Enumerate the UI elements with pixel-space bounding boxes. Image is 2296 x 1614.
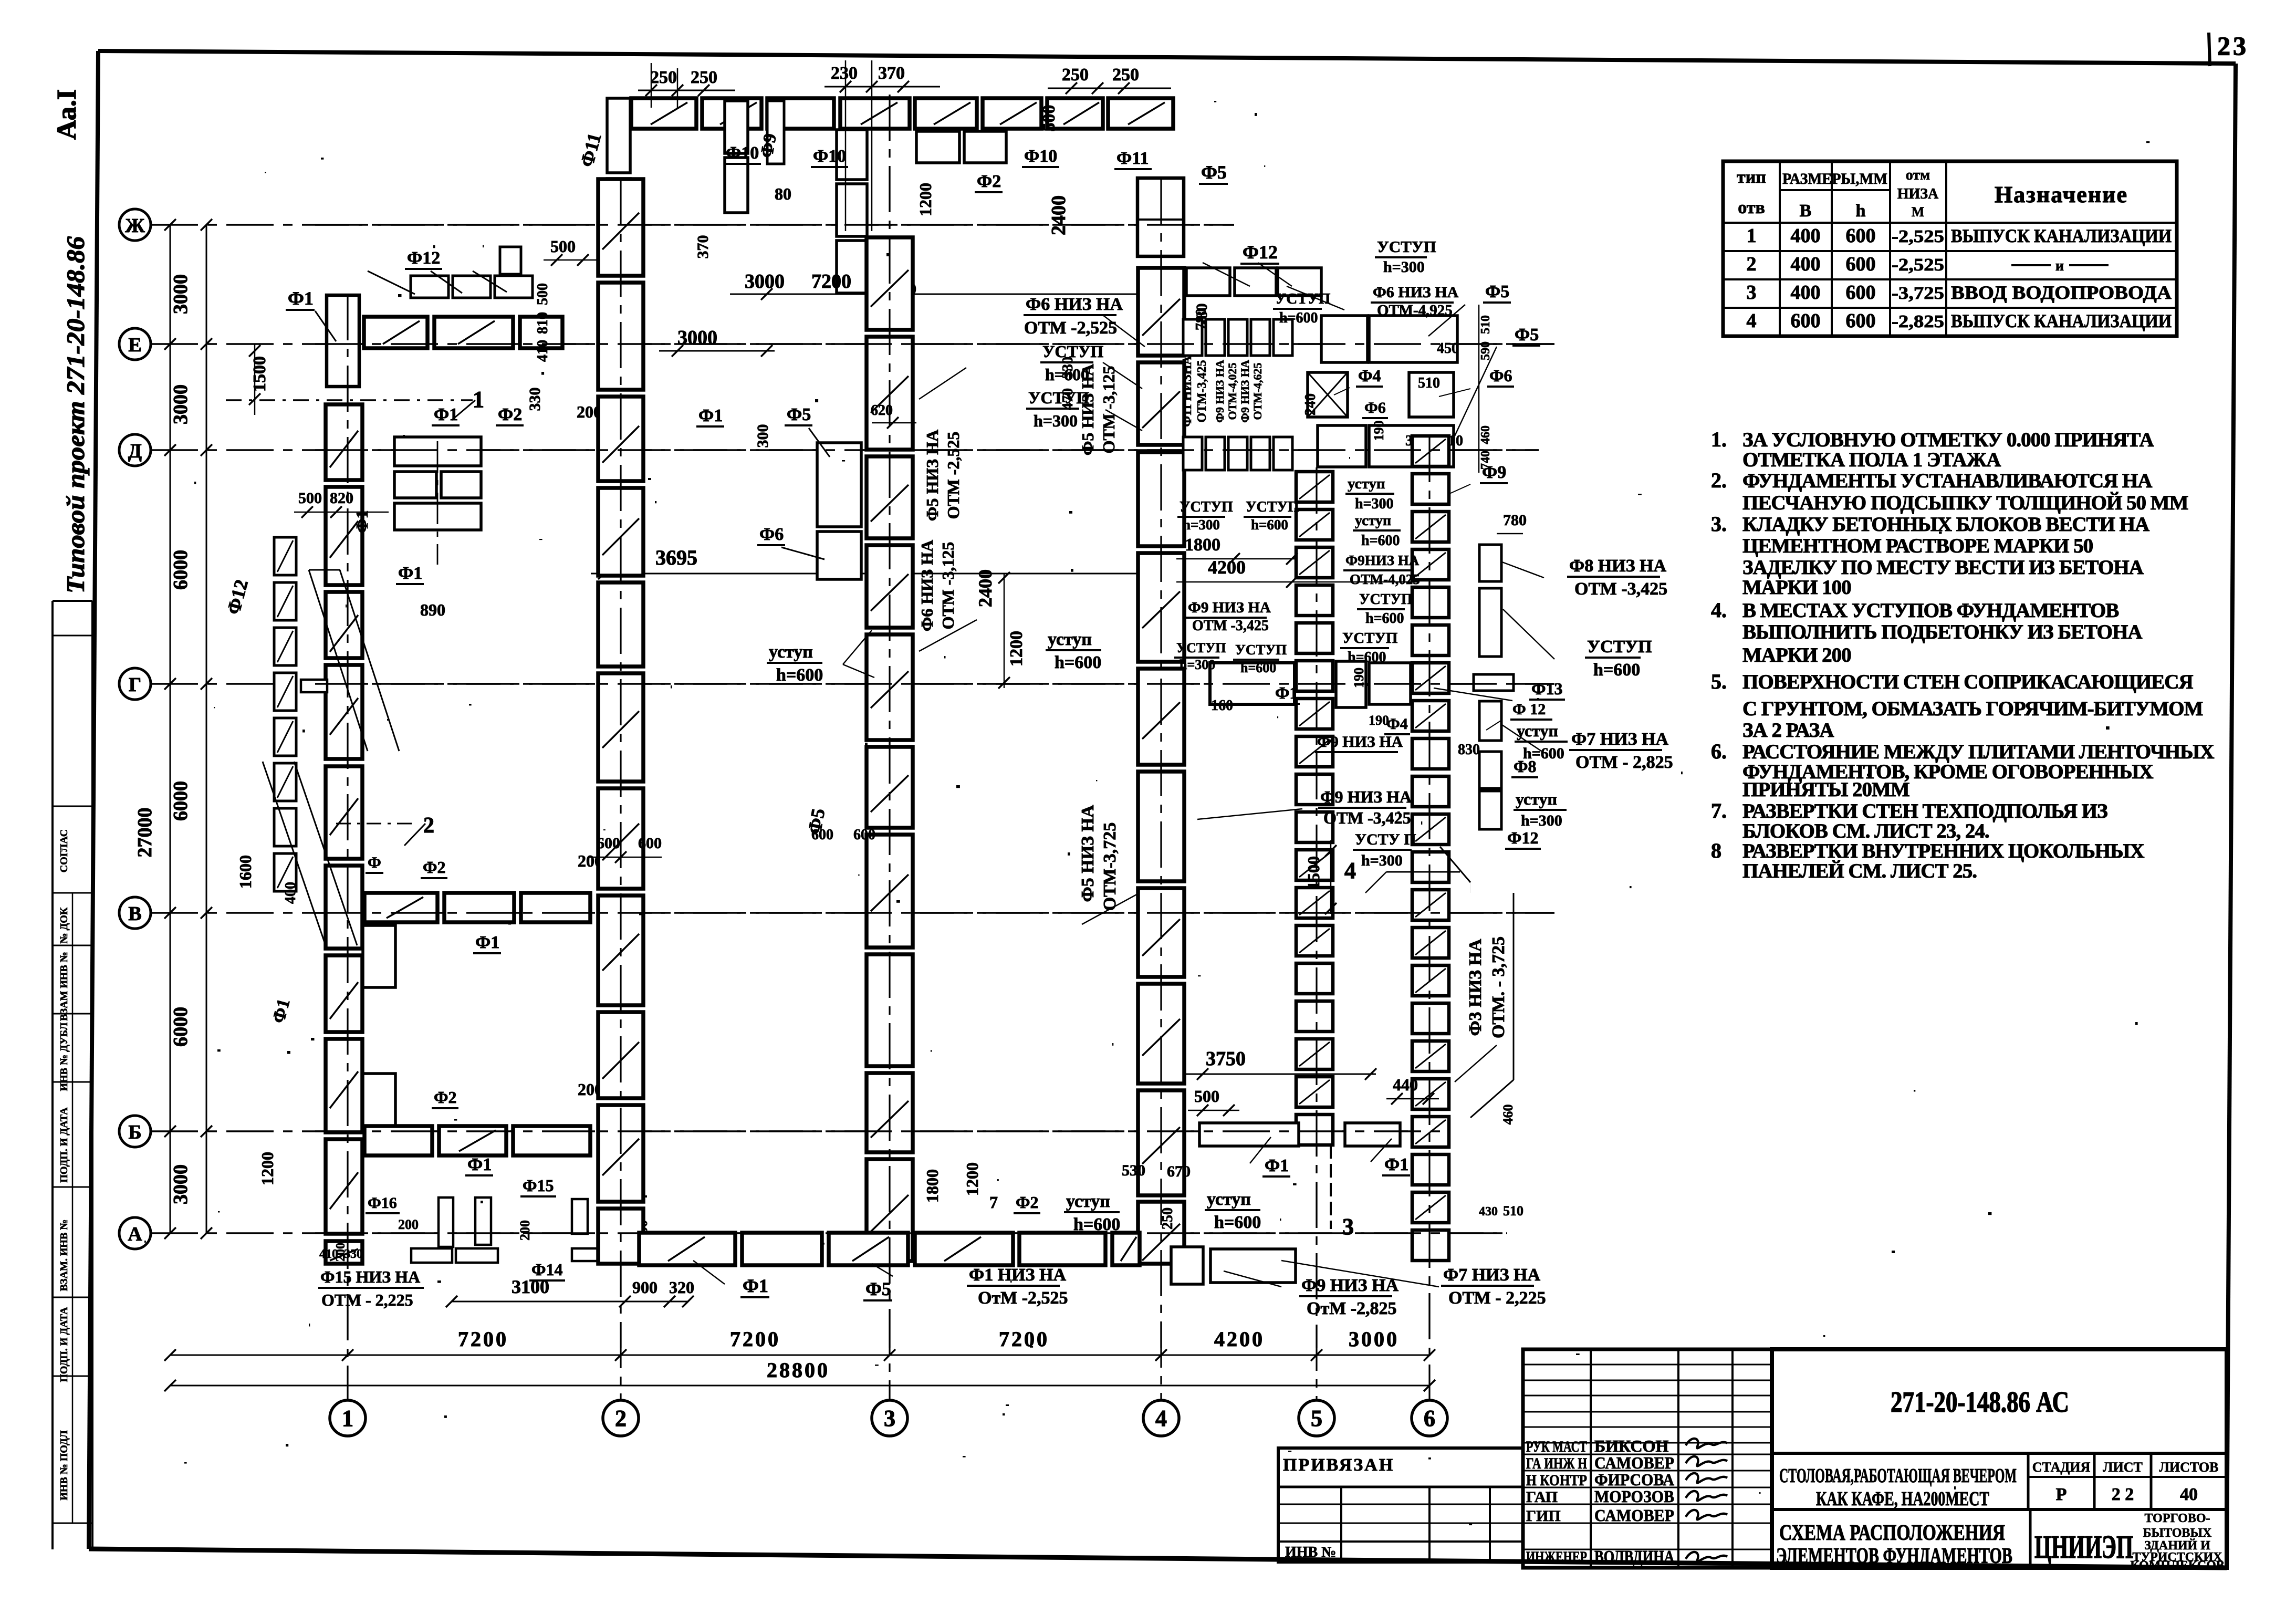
svg-text:С ГРУНТОМ, ОБМАЗАТЬ ГОРЯЧИМ-БИ: С ГРУНТОМ, ОБМАЗАТЬ ГОРЯЧИМ-БИТУМОМ xyxy=(1742,697,2203,720)
svg-text:НИЗА: НИЗА xyxy=(1897,186,1939,202)
grid axis bubbles (letters) xyxy=(119,209,151,241)
svg-text:500: 500 xyxy=(298,490,322,507)
signature table xyxy=(1523,1349,1772,1568)
svg-text:СОГЛАС: СОГЛАС xyxy=(58,829,70,873)
F15/F16/F14 small blocks bottom-left xyxy=(439,1198,453,1247)
svg-text:Р: Р xyxy=(2056,1485,2067,1504)
svg-text:3000: 3000 xyxy=(170,1164,192,1204)
svg-text:1800: 1800 xyxy=(923,1169,942,1203)
svg-text:УСТУП: УСТУП xyxy=(1377,237,1436,256)
top wall block row (row Zh) xyxy=(631,98,696,129)
right parallelogram callout xyxy=(1440,847,1470,882)
svg-text:600: 600 xyxy=(597,835,620,852)
svg-text:23: 23 xyxy=(2217,31,2249,60)
bottom dimension chains xyxy=(170,1355,1429,1356)
svg-text:УСТУП: УСТУП xyxy=(1028,388,1089,407)
F5/F6 column left of grid3 xyxy=(817,443,861,527)
horizontal grid axis lines xyxy=(151,224,1234,226)
svg-text:Ф1: Ф1 xyxy=(743,1275,768,1296)
svg-text:Ф12: Ф12 xyxy=(223,577,252,617)
svg-text:2 2: 2 2 xyxy=(2112,1485,2134,1504)
axis overlay lines xyxy=(315,224,1234,226)
svg-text:БЫТОВЫХ: БЫТОВЫХ xyxy=(2143,1526,2212,1540)
outer right column blocks xyxy=(1479,545,1501,581)
svg-text:1600: 1600 xyxy=(236,855,255,889)
second row blocks top wall xyxy=(916,131,959,163)
svg-text:В МЕСТАХ УСТУПОВ ФУНДАМЕНТОВ: В МЕСТАХ УСТУПОВ ФУНДАМЕНТОВ xyxy=(1742,599,2118,622)
svg-text:А: А xyxy=(128,1223,142,1245)
svg-text:460: 460 xyxy=(1479,425,1493,444)
svg-text:h=600: h=600 xyxy=(1279,310,1318,326)
svg-text:Ф9: Ф9 xyxy=(757,132,780,159)
svg-text:ФИРСОВА: ФИРСОВА xyxy=(1594,1470,1674,1489)
svg-text:-2,825: -2,825 xyxy=(1892,312,1944,331)
svg-text:Ф12: Ф12 xyxy=(1243,242,1278,263)
top-right cluster: 5-block row 1 xyxy=(1183,319,1202,356)
svg-text:РУК МАСТ: РУК МАСТ xyxy=(1526,1438,1587,1455)
svg-text:271-20-148.86 АС: 271-20-148.86 АС xyxy=(1891,1386,2069,1419)
svg-text:ЗАДЕЛКУ ПО МЕСТУ ВЕСТИ ИЗ БЕТО: ЗАДЕЛКУ ПО МЕСТУ ВЕСТИ ИЗ БЕТОНА xyxy=(1742,556,2144,579)
2x3 block cluster F1 mid-left xyxy=(394,437,481,466)
svg-text:h=300: h=300 xyxy=(1521,812,1562,829)
svg-text:3.: 3. xyxy=(1711,512,1727,536)
svg-text:Ф7 НИЗ НА: Ф7 НИЗ НА xyxy=(1443,1265,1540,1285)
svg-text:1.: 1. xyxy=(1711,428,1727,451)
svg-text:530: 530 xyxy=(1122,1162,1145,1179)
svg-text:и: и xyxy=(2055,258,2064,274)
svg-text:ОТМЕТКА ПОЛА 1 ЭТАЖА: ОТМЕТКА ПОЛА 1 ЭТАЖА xyxy=(1742,449,2001,471)
svg-text:Ф3 НИЗ НА: Ф3 НИЗ НА xyxy=(1466,939,1485,1036)
svg-text:тип: тип xyxy=(1737,168,1766,187)
svg-text:h=600: h=600 xyxy=(1055,653,1101,672)
svg-text:САМОВЕР: САМОВЕР xyxy=(1594,1453,1674,1472)
svg-text:СТОЛОВАЯ,РАБОТАЮЩАЯ ВЕЧЕРОМ: СТОЛОВАЯ,РАБОТАЮЩАЯ ВЕЧЕРОМ xyxy=(1779,1465,2017,1487)
svg-text:М: М xyxy=(1912,204,1925,220)
svg-text:600: 600 xyxy=(1846,310,1876,332)
svg-text:БИКСОН: БИКСОН xyxy=(1594,1436,1668,1455)
svg-text:h=600: h=600 xyxy=(1045,365,1089,384)
svg-text:Ф1: Ф1 xyxy=(1275,683,1298,702)
svg-text:3750: 3750 xyxy=(1206,1048,1246,1070)
svg-text:3000: 3000 xyxy=(745,270,785,293)
svg-text:h=600: h=600 xyxy=(1593,660,1640,680)
page number 23 xyxy=(2209,33,2210,66)
svg-text:Н КОНТР: Н КОНТР xyxy=(1526,1472,1587,1489)
svg-text:Ф4: Ф4 xyxy=(1386,715,1408,733)
svg-text:Ф1: Ф1 xyxy=(352,511,371,533)
svg-text:ОТМ - 2,225: ОТМ - 2,225 xyxy=(321,1290,413,1309)
svg-text:уступ: уступ xyxy=(1207,1190,1251,1209)
svg-text:1: 1 xyxy=(1747,225,1757,247)
svg-text:Ф4: Ф4 xyxy=(1358,366,1381,385)
svg-text:ОТМ -3,425: ОТМ -3,425 xyxy=(1574,579,1667,599)
F5 block at top of grid 4 xyxy=(1137,178,1184,256)
svg-text:ВЫПУСК КАНАЛИЗАЦИИ: ВЫПУСК КАНАЛИЗАЦИИ xyxy=(1951,225,2172,246)
svg-text:810: 810 xyxy=(535,312,551,334)
svg-text:510: 510 xyxy=(1503,1203,1523,1219)
svg-text:Ф: Ф xyxy=(368,854,381,871)
svg-text:ВЫПОЛНИТЬ ПОДБЕТОНКУ ИЗ БЕТОН: ВЫПОЛНИТЬ ПОДБЕТОНКУ ИЗ БЕТОНА xyxy=(1742,621,2142,643)
svg-text:2400: 2400 xyxy=(1048,195,1070,235)
svg-text:6000: 6000 xyxy=(170,781,192,821)
F4 square with cross xyxy=(1308,372,1348,417)
svg-text:500: 500 xyxy=(1194,1087,1219,1106)
svg-text:ВЗАМ. ИНВ №: ВЗАМ. ИНВ № xyxy=(58,1220,70,1292)
svg-text:УСТУП: УСТУП xyxy=(1180,499,1233,515)
bottom wall row A xyxy=(639,1233,735,1265)
svg-text:Ф8 НИЗ НА: Ф8 НИЗ НА xyxy=(1569,556,1666,576)
left dimension chain xyxy=(170,225,171,1233)
svg-text:Ф16: Ф16 xyxy=(368,1194,397,1212)
svg-text:РАЗВЕРТКИ СТЕН ТЕХПОДПОЛЬЯ ИЗ: РАЗВЕРТКИ СТЕН ТЕХПОДПОЛЬЯ ИЗ xyxy=(1742,800,2107,822)
svg-text:ИНВ № ПОДЛ: ИНВ № ПОДЛ xyxy=(58,1430,70,1500)
svg-text:600: 600 xyxy=(1846,253,1876,275)
svg-text:ОТМ-4,025: ОТМ-4,025 xyxy=(1350,571,1420,587)
svg-text:уступ: уступ xyxy=(1516,789,1557,808)
svg-text:5.: 5. xyxy=(1711,670,1727,693)
svg-text:3: 3 xyxy=(884,1405,895,1431)
grid 3 wall strip xyxy=(867,237,913,330)
svg-text:8: 8 xyxy=(1711,839,1721,862)
svg-text:Ф6 НИЗ НА: Ф6 НИЗ НА xyxy=(1026,295,1123,314)
svg-text:Ф10: Ф10 xyxy=(726,143,759,163)
svg-text:Б: Б xyxy=(128,1121,141,1143)
svg-text:7200: 7200 xyxy=(999,1327,1049,1351)
title block main xyxy=(1772,1349,2227,1568)
svg-text:Ф12: Ф12 xyxy=(407,248,440,268)
svg-text:440: 440 xyxy=(1393,1075,1418,1094)
svg-text:h=600: h=600 xyxy=(1365,610,1404,627)
svg-text:7200: 7200 xyxy=(730,1327,780,1351)
svg-text:6000: 6000 xyxy=(170,1007,192,1047)
svg-text:Ф1: Ф1 xyxy=(467,1155,492,1174)
svg-text:Ф10: Ф10 xyxy=(1024,147,1057,166)
svg-text:УСТУП: УСТУП xyxy=(1359,591,1413,608)
svg-text:ИНВ № ДУБЛ: ИНВ № ДУБЛ xyxy=(58,1022,70,1091)
svg-text:500: 500 xyxy=(1039,105,1059,132)
svg-text:28800: 28800 xyxy=(767,1358,830,1382)
callout 1 xyxy=(226,399,473,401)
svg-text:2: 2 xyxy=(423,814,434,838)
F12 mini row above E xyxy=(411,276,448,298)
svg-text:ИНЖЕНЕР: ИНЖЕНЕР xyxy=(1526,1548,1587,1566)
svg-text:РАЗМЕРЫ,ММ: РАЗМЕРЫ,ММ xyxy=(1782,170,1887,188)
row B right strips xyxy=(1199,1123,1299,1146)
svg-text:Ф13: Ф13 xyxy=(1531,679,1562,698)
svg-text:уступ: уступ xyxy=(1355,513,1391,529)
svg-text:Е: Е xyxy=(128,334,141,356)
svg-text:Ж: Ж xyxy=(125,215,145,237)
svg-text:ПРИНЯТЫ 20ММ: ПРИНЯТЫ 20ММ xyxy=(1742,778,1909,801)
svg-text:уступ: уступ xyxy=(1348,475,1385,492)
grid 5 ladder strip xyxy=(1296,472,1333,502)
callout 2 xyxy=(336,823,415,825)
svg-text:№ ДОК: № ДОК xyxy=(58,907,70,943)
svg-text:4.: 4. xyxy=(1711,598,1727,622)
svg-text:Ф2: Ф2 xyxy=(977,172,1001,191)
top small dim chains xyxy=(638,90,735,91)
svg-text:1800: 1800 xyxy=(1185,535,1220,555)
svg-text:ТОРГОВО-: ТОРГОВО- xyxy=(2144,1512,2210,1525)
callout 3 and 4 xyxy=(1330,1145,1332,1229)
svg-text:Ф9 НИЗ НА: Ф9 НИЗ НА xyxy=(1320,787,1412,806)
svg-text:200: 200 xyxy=(517,1220,533,1241)
svg-text:Ф11: Ф11 xyxy=(1116,149,1149,168)
svg-text:УСТУП: УСТУП xyxy=(1235,642,1287,658)
svg-text:3: 3 xyxy=(1747,282,1757,304)
sheet border frame xyxy=(98,51,2236,64)
svg-text:Ф 12: Ф 12 xyxy=(1512,701,1546,718)
svg-text:Ф10: Ф10 xyxy=(813,147,846,166)
svg-text:ГИП: ГИП xyxy=(1526,1507,1561,1525)
svg-text:h=300: h=300 xyxy=(1034,411,1078,430)
svg-text:Типовой проект 271-20-148.86: Типовой проект 271-20-148.86 xyxy=(62,236,90,593)
svg-text:ПАНЕЛЕЙ СМ. ЛИСТ 25.: ПАНЕЛЕЙ СМ. ЛИСТ 25. xyxy=(1742,859,1977,882)
svg-text:4: 4 xyxy=(1344,858,1356,883)
svg-text:Ф1: Ф1 xyxy=(288,288,314,309)
svg-text:УСТУП: УСТУП xyxy=(1587,637,1652,657)
svg-text:7200: 7200 xyxy=(458,1327,508,1351)
svg-text:Ф9 НИЗ НА: Ф9 НИЗ НА xyxy=(1213,360,1226,423)
svg-text:Ф9 НИЗ НА: Ф9 НИЗ НА xyxy=(1238,360,1251,423)
svg-text:Ф6: Ф6 xyxy=(1364,399,1386,416)
top-right cluster: F12 row xyxy=(1186,268,1230,296)
svg-text:160: 160 xyxy=(1211,697,1233,714)
svg-text:Ф1: Ф1 xyxy=(1265,1156,1289,1175)
svg-text:ОТМ-4,925: ОТМ-4,925 xyxy=(1377,302,1453,319)
svg-text:ОтМ -2,825: ОтМ -2,825 xyxy=(1307,1299,1397,1318)
svg-text:Назначение: Назначение xyxy=(1995,182,2128,207)
svg-text:27000: 27000 xyxy=(134,808,156,858)
sidebar attribute box column xyxy=(51,601,54,1549)
svg-text:ГАП: ГАП xyxy=(1526,1488,1558,1506)
svg-text:670: 670 xyxy=(1167,1163,1191,1180)
dim 3100 900 320 xyxy=(452,1301,688,1303)
svg-text:h=600: h=600 xyxy=(1251,517,1288,533)
svg-text:ОТМ-3,425: ОТМ-3,425 xyxy=(1195,360,1209,422)
svg-text:УСТУП: УСТУП xyxy=(1176,640,1226,655)
top wall stub a xyxy=(725,101,748,153)
svg-text:МАРКИ 100: МАРКИ 100 xyxy=(1742,576,1851,599)
svg-text:510: 510 xyxy=(1418,375,1440,391)
svg-text:4: 4 xyxy=(1155,1405,1167,1431)
privyazan table xyxy=(1278,1448,1523,1562)
svg-text:Ф5 НИЗ НА: Ф5 НИЗ НА xyxy=(1078,805,1098,902)
svg-text:ОТМ -3,125: ОТМ -3,125 xyxy=(1099,366,1118,454)
svg-text:780: 780 xyxy=(1193,308,1209,330)
svg-text:3000: 3000 xyxy=(170,384,192,424)
svg-text:Ф1: Ф1 xyxy=(434,405,458,424)
svg-text:ПРИВЯЗАН: ПРИВЯЗАН xyxy=(1283,1455,1394,1475)
svg-text:h=600: h=600 xyxy=(1240,660,1276,675)
svg-text:1500: 1500 xyxy=(1304,856,1323,890)
svg-text:250: 250 xyxy=(691,68,717,87)
svg-text:МОРОЗОВ: МОРОЗОВ xyxy=(1594,1487,1674,1506)
svg-text:Ф8: Ф8 xyxy=(1514,757,1536,776)
svg-text:890: 890 xyxy=(420,600,445,619)
row A right end blocks xyxy=(1171,1247,1203,1284)
svg-text:БЛОКОВ СМ. ЛИСТ 23, 24.: БЛОКОВ СМ. ЛИСТ 23, 24. xyxy=(1742,820,1989,842)
svg-text:6000: 6000 xyxy=(170,550,192,590)
bottom axis bubbles (numbers) xyxy=(330,1400,366,1436)
svg-text:6: 6 xyxy=(1424,1405,1435,1431)
svg-text:ПОДП. И ДАТА: ПОДП. И ДАТА xyxy=(58,1307,70,1382)
svg-text:320: 320 xyxy=(669,1278,694,1297)
svg-text:1500: 1500 xyxy=(250,356,269,392)
top wall stub left xyxy=(607,98,630,173)
svg-text:190: 190 xyxy=(1369,713,1389,728)
svg-text:600: 600 xyxy=(1791,310,1821,332)
svg-text:600: 600 xyxy=(1846,225,1876,247)
svg-text:330: 330 xyxy=(526,388,544,411)
top wall lower stub grid3 xyxy=(837,130,867,180)
svg-text:Ф9 НИЗ НА: Ф9 НИЗ НА xyxy=(1188,599,1271,616)
svg-text:-2,525: -2,525 xyxy=(1892,255,1944,275)
svg-text:ЦНИИЭП: ЦНИИЭП xyxy=(2034,1529,2133,1565)
top-right cluster: big blocks row 1 xyxy=(1321,316,1368,362)
svg-text:460: 460 xyxy=(1500,1105,1516,1125)
svg-text:600: 600 xyxy=(811,827,833,843)
svg-text:Ф12: Ф12 xyxy=(1507,828,1538,847)
svg-text:1: 1 xyxy=(473,387,484,412)
svg-text:250: 250 xyxy=(1062,65,1089,85)
svg-text:370: 370 xyxy=(694,235,712,259)
svg-text:400: 400 xyxy=(1791,225,1821,247)
svg-text:Ф2: Ф2 xyxy=(1016,1193,1038,1212)
svg-text:ИНВ №: ИНВ № xyxy=(1285,1544,1336,1560)
svg-text:190: 190 xyxy=(1351,668,1366,688)
svg-text:СХЕМА РАСПОЛОЖЕНИЯ: СХЕМА РАСПОЛОЖЕНИЯ xyxy=(1779,1521,2005,1545)
svg-text:уступ: уступ xyxy=(1048,630,1092,649)
svg-text:Ф5 НИЗ НА: Ф5 НИЗ НА xyxy=(923,430,942,521)
svg-text:уступ: уступ xyxy=(769,642,813,662)
svg-text:250: 250 xyxy=(650,68,677,87)
svg-text:ВЫПУСК КАНАЛИЗАЦИИ: ВЫПУСК КАНАЛИЗАЦИИ xyxy=(1951,310,2172,331)
svg-text:ОТМ -3,425: ОТМ -3,425 xyxy=(1323,808,1411,827)
svg-text:ОТМ -3,425: ОТМ -3,425 xyxy=(1192,618,1269,634)
svg-text:40: 40 xyxy=(2180,1485,2198,1504)
svg-text:600: 600 xyxy=(1846,282,1876,304)
svg-text:Ф1: Ф1 xyxy=(475,933,499,952)
row G right strip xyxy=(1210,663,1295,704)
svg-text:5: 5 xyxy=(1311,1405,1322,1431)
svg-text:830: 830 xyxy=(1458,742,1480,758)
svg-text:Д: Д xyxy=(128,440,142,462)
svg-text:ОТМ -2,525: ОТМ -2,525 xyxy=(944,432,963,519)
svg-text:450: 450 xyxy=(1437,340,1459,357)
svg-text:Ф5: Ф5 xyxy=(1515,325,1539,345)
svg-text:-3,725: -3,725 xyxy=(1892,284,1944,303)
svg-text:КЛАДКУ БЕТОННЫХ БЛОКОВ ВЕСТИ Н: КЛАДКУ БЕТОННЫХ БЛОКОВ ВЕСТИ НА xyxy=(1742,513,2149,536)
svg-text:ПОДП. И ДАТА: ПОДП. И ДАТА xyxy=(58,1107,70,1183)
grid 2 wall strip xyxy=(598,179,643,276)
grid 1 wall strip xyxy=(326,404,362,480)
svg-text:ПЕСЧАНУЮ ПОДСЫПКУ ТОЛЩИНОЙ 50: ПЕСЧАНУЮ ПОДСЫПКУ ТОЛЩИНОЙ 50 ММ xyxy=(1742,491,2188,514)
svg-text:Ф1: Ф1 xyxy=(698,406,723,425)
top-right cluster: 5-block row 2 xyxy=(1183,437,1202,470)
svg-text:В: В xyxy=(1800,201,1812,221)
svg-text:1200: 1200 xyxy=(916,183,935,216)
svg-text:780: 780 xyxy=(1503,512,1527,529)
svg-text:УСТУ П: УСТУ П xyxy=(1355,831,1416,848)
svg-text:ВЗАМ ИНВ №: ВЗАМ ИНВ № xyxy=(58,952,70,1021)
F2 stubs inner left xyxy=(363,925,395,987)
svg-text:Г: Г xyxy=(129,674,141,696)
svg-text:230: 230 xyxy=(831,64,858,83)
svg-text:Ф6: Ф6 xyxy=(759,525,784,544)
svg-text:h=300: h=300 xyxy=(1183,517,1220,533)
F6 square xyxy=(1409,372,1454,417)
svg-text:200: 200 xyxy=(398,1217,419,1232)
svg-text:240: 240 xyxy=(1302,393,1319,415)
svg-text:3695: 3695 xyxy=(655,546,697,569)
row E left wall strip xyxy=(327,295,359,387)
svg-text:430: 430 xyxy=(1479,1205,1498,1219)
svg-text:Ф7 НИЗ НА: Ф7 НИЗ НА xyxy=(1571,730,1668,749)
svg-text:4200: 4200 xyxy=(1208,557,1246,578)
svg-text:ФУНДАМЕНТЫ УСТАНАВЛИВАЮТСЯ НА: ФУНДАМЕНТЫ УСТАНАВЛИВАЮТСЯ НА xyxy=(1742,470,2152,492)
grid 4 wall strip xyxy=(1138,268,1184,356)
svg-text:ВОЛВДИНА: ВОЛВДИНА xyxy=(1594,1547,1674,1566)
svg-text:ОтМ -2,525: ОтМ -2,525 xyxy=(978,1288,1068,1308)
svg-text:ОТМ -2,525: ОТМ -2,525 xyxy=(1024,318,1117,338)
svg-text:h=300: h=300 xyxy=(1383,258,1425,276)
svg-text:h: h xyxy=(1856,201,1866,221)
svg-text:600: 600 xyxy=(638,835,662,852)
svg-text:Ф1: Ф1 xyxy=(269,997,294,1025)
svg-text:УСТУП: УСТУП xyxy=(1342,630,1397,647)
svg-text:ЛИСТ: ЛИСТ xyxy=(2103,1460,2143,1475)
svg-text:1200: 1200 xyxy=(1007,631,1026,667)
svg-text:Ф9 НИЗ НА: Ф9 НИЗ НА xyxy=(1317,733,1403,751)
svg-text:РАЗВЕРТКИ ВНУТРЕННИХ ЦОКОЛЬНЫХ: РАЗВЕРТКИ ВНУТРЕННИХ ЦОКОЛЬНЫХ xyxy=(1742,840,2144,862)
svg-text:h=300: h=300 xyxy=(1180,657,1215,672)
svg-text:-2,525: -2,525 xyxy=(1892,227,1944,246)
svg-text:ОТМ - 2,825: ОТМ - 2,825 xyxy=(1575,753,1673,772)
svg-text:4200: 4200 xyxy=(1214,1327,1265,1351)
svg-text:80: 80 xyxy=(775,184,791,203)
svg-text:ПОВЕРХНОСТИ СТЕН СОПРИКАСАЮЩИЕ: ПОВЕРХНОСТИ СТЕН СОПРИКАСАЮЩИЕСЯ xyxy=(1742,671,2193,693)
svg-text:Ф15: Ф15 xyxy=(523,1176,554,1195)
svg-text:7: 7 xyxy=(989,1193,998,1212)
svg-text:400: 400 xyxy=(283,882,299,904)
svg-text:ЦЕМЕНТНОМ РАСТВОРЕ МАРКИ 50: ЦЕМЕНТНОМ РАСТВОРЕ МАРКИ 50 xyxy=(1742,535,2093,557)
svg-text:ЗА 2 РАЗА: ЗА 2 РАЗА xyxy=(1742,719,1834,742)
vertical grid axis lines xyxy=(347,294,348,1400)
svg-text:Ф1: Ф1 xyxy=(398,564,422,583)
top wall stub b xyxy=(767,101,784,164)
svg-text:500: 500 xyxy=(550,237,576,256)
row V left strip xyxy=(364,893,437,922)
svg-text:ОТМ. - 3,725: ОТМ. - 3,725 xyxy=(1489,936,1508,1038)
svg-text:Ф11 НИЗНА: Ф11 НИЗНА xyxy=(1181,356,1194,427)
svg-text:7200: 7200 xyxy=(811,270,851,293)
svg-text:Ф9НИЗ НА: Ф9НИЗ НА xyxy=(1345,553,1420,568)
svg-text:отм: отм xyxy=(1906,167,1930,183)
svg-text:ГА ИНЖ Н: ГА ИНЖ Н xyxy=(1526,1455,1587,1472)
svg-text:МАРКИ 200: МАРКИ 200 xyxy=(1742,644,1851,667)
row B left strip xyxy=(364,1126,432,1155)
svg-text:СТАДИЯ: СТАДИЯ xyxy=(2032,1460,2091,1475)
svg-text:7.: 7. xyxy=(1711,799,1727,822)
svg-text:900: 900 xyxy=(632,1278,658,1297)
svg-text:600: 600 xyxy=(853,827,875,843)
svg-text:Аа.I: Аа.I xyxy=(52,89,82,140)
svg-text:В: В xyxy=(128,903,141,925)
svg-text:КОМПЛЕКСОВ: КОМПЛЕКСОВ xyxy=(2130,1559,2225,1573)
svg-text:Ф15 НИЗ НА: Ф15 НИЗ НА xyxy=(320,1267,420,1286)
svg-text:400: 400 xyxy=(1791,253,1821,275)
